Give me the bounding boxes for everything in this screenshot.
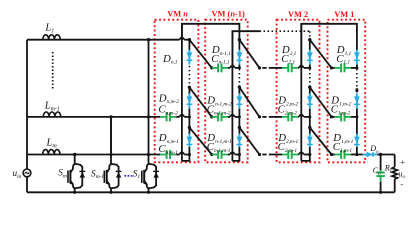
svg-text:-: - — [400, 179, 403, 189]
node diagonal end — [210, 66, 213, 69]
node chain junctions VM n — [188, 38, 191, 41]
inductor Lm-1 — [43, 112, 60, 117]
capacitor Cn-1,1 — [212, 67, 218, 69]
node diagonal end — [258, 153, 261, 156]
svg-text:+: + — [400, 157, 405, 167]
node dots ground rail — [73, 191, 76, 194]
wire row F3 to hop — [176, 154, 179, 156]
wire row F3 to chain — [184, 154, 189, 156]
wire chain bottom VM n — [188, 147, 190, 155]
wire row to chain VM 1 — [351, 67, 357, 69]
wire Do to output corner — [377, 154, 394, 156]
diode D1,1 — [356, 50, 358, 65]
wire rail VMn to VMn-1 — [182, 24, 240, 40]
wire chain bottom VM n-1 — [238, 147, 240, 155]
wire diagonal VM n-1 to row 1 — [239, 40, 259, 68]
diode Dn-1,1 — [238, 50, 240, 65]
transistor S1 — [148, 155, 150, 165]
wire row to hop VM 2 — [297, 67, 300, 69]
wire chain lower VM n-1 — [238, 128, 240, 135]
wire hop over return VM 2 — [299, 115, 303, 117]
wire row F2 to hop — [176, 116, 179, 118]
capacitor C1,m-1 — [335, 154, 341, 156]
wire chain junction stub VM n — [188, 86, 190, 96]
wire row to chain VM 2 — [304, 67, 310, 69]
VM box VM (n-1) — [205, 20, 248, 163]
wire hop F2 over return — [180, 115, 184, 117]
wire U-detour VM n-1 — [232, 155, 239, 161]
wire row to hop VM 2 — [297, 116, 300, 118]
capacitor C1,m-2 — [335, 116, 341, 118]
capacitor Cn,m-1 — [160, 154, 166, 156]
wire row to hop VM n-1 — [228, 116, 230, 118]
wire chain mid VM 2 — [309, 109, 311, 129]
wire chain lower VM 1 — [356, 128, 358, 135]
capacitor Co — [380, 155, 382, 171]
wire row 1 VM n-1 — [211, 67, 213, 69]
wire rail VM2 to VM1 — [301, 24, 357, 68]
diode Dn,m-1 — [188, 134, 190, 147]
wire hop over return VM 2 — [299, 152, 303, 154]
wire row m-1 VM n-1 — [211, 154, 213, 156]
wire chain dotted VM 1 — [356, 69, 358, 93]
wire chain mid VM n — [188, 109, 190, 129]
wire row 1 VM 2 — [269, 67, 282, 69]
wire diagonal VM 2 to row m-1 — [310, 128, 332, 155]
wire U-detour VM 2 — [301, 155, 310, 161]
svg-text:VM 1: VM 1 — [334, 10, 354, 19]
wire chain bottom VM 2 — [309, 147, 311, 155]
wire diagonal VM n-1 to row m-2 — [239, 87, 259, 117]
wire row to chain VM 2 — [304, 116, 310, 118]
wire row m-1 VM 2 — [269, 154, 282, 156]
wire chain dotted VM 2 — [309, 69, 311, 86]
phase ellipsis dotted — [52, 52, 54, 89]
wire diagonal VM n to row m-2 — [189, 87, 211, 117]
wire hop over return VM 2 — [299, 66, 303, 68]
wire chain top VM n-1 — [238, 40, 240, 51]
wire diagonal VM 2 to row 1 — [310, 40, 332, 68]
node diagonal end — [210, 115, 213, 118]
wire hop over return VM n-1 — [230, 115, 234, 117]
wire chain to row A VM 1 — [356, 65, 358, 68]
diode Do — [363, 154, 378, 156]
VM box VM n — [155, 20, 199, 163]
capacitor C2,m-1 — [282, 154, 288, 156]
node row junctions VM 2 — [308, 66, 311, 69]
node diagonal end — [210, 153, 213, 156]
node dot on dotted chain VM 1 — [355, 88, 358, 92]
diode D2,m-1 — [309, 134, 311, 147]
diode Dn,m-2 — [188, 93, 190, 108]
wire row F1 to chain — [184, 39, 189, 41]
node diagonal end — [258, 66, 261, 69]
wire chain dotted VM n — [188, 66, 190, 86]
node diagonal end — [330, 115, 333, 118]
inductor L1 — [43, 35, 60, 40]
node chain junctions VM n-1 — [238, 38, 241, 41]
wire chain dotted VM n-1 — [238, 69, 240, 86]
capacitor Cn-1,m-1 — [212, 154, 218, 156]
capacitor Cn,m-2 — [160, 116, 166, 118]
wire bottom rail — [27, 191, 395, 193]
wire chain lower VM n — [188, 128, 190, 135]
inductor Lm — [43, 150, 60, 155]
wire hop F1 over return — [180, 38, 184, 40]
source u_in — [23, 169, 31, 177]
VM box VM 1 — [328, 20, 366, 163]
wire ellipsis dash — [262, 154, 266, 156]
wire rail VMn-1 to VM2 (dotted) — [232, 31, 259, 68]
wire ellipsis dash — [262, 116, 266, 118]
svg-text:VM 2: VM 2 — [288, 10, 308, 19]
wire Sm-1 drain vertical — [110, 117, 112, 155]
wire chain to row A VM n-1 — [238, 65, 240, 68]
wire chain lower VM 2 — [309, 128, 311, 135]
svg-text:VM (n-1): VM (n-1) — [212, 9, 245, 18]
node row junctions VM 1 — [355, 66, 358, 69]
wire hop over return VM n-1 — [230, 66, 234, 68]
wire U-detour VM n — [182, 155, 190, 161]
switch ellipsis dots — [124, 175, 126, 177]
diode D2,m-2 — [309, 93, 311, 108]
wire row F3 (Lm feed) — [27, 154, 160, 156]
wire hop over return VM n-1 — [230, 152, 234, 154]
resistor RL — [394, 155, 396, 167]
wire row to chain VM n-1 — [235, 154, 240, 156]
transistor Sm — [74, 155, 76, 165]
wire ellipsis dash — [262, 67, 266, 69]
capacitor C2,1 — [282, 67, 288, 69]
diode D2,1 — [309, 50, 311, 65]
wire diagonal VM n-1 to row m-1 — [239, 128, 259, 155]
wire return vertical VM n — [181, 24, 183, 161]
node row junctions VM n — [188, 115, 191, 118]
wire row to chain VM 2 — [304, 154, 310, 156]
capacitor C2,m-2 — [282, 116, 288, 118]
wire diagonal VM n to row m-1 — [189, 128, 211, 155]
wire row to chain VM 1 — [351, 116, 357, 118]
wire diagonal VM 2 to row m-2 — [310, 87, 332, 117]
wire chain top VM n — [188, 40, 190, 51]
node diagonal end — [258, 115, 261, 118]
wire chain junction stub VM n-1 — [238, 86, 240, 96]
capacitor C1,1 — [335, 67, 341, 69]
wire row to chain VM 1 — [351, 154, 357, 156]
wire row F2 (Lm-1 feed) — [27, 116, 160, 118]
wire row m-2 VM 1 — [332, 116, 335, 118]
wire row to chain VM n-1 — [235, 67, 240, 69]
wire row to hop VM n-1 — [228, 67, 230, 69]
wire row F1 (L1 feed) — [27, 39, 180, 41]
wire left vertical — [26, 40, 28, 169]
wire chain mid VM n-1 — [238, 109, 240, 129]
diode D1,m-1 — [356, 134, 358, 147]
diode D1,m-2 — [356, 93, 358, 108]
capacitor Cn-1,m-2 — [212, 116, 218, 118]
wire row to hop VM 2 — [297, 154, 300, 156]
wire row F2 to chain — [184, 116, 189, 118]
wire row to chain VM n-1 — [235, 116, 240, 118]
wire chain junction stub VM 2 — [309, 86, 311, 96]
wire row 1 VM 1 — [332, 67, 335, 69]
VM box VM 2 — [277, 20, 320, 163]
diode Dn-1,m-2 — [238, 93, 240, 108]
node chain junctions VM 2 — [308, 38, 311, 41]
diode Dn,1 — [188, 50, 190, 65]
wire row to hop VM n-1 — [228, 154, 230, 156]
transistor Sm-1 — [110, 117, 112, 164]
wire diagonal VM n to row 1 — [189, 40, 211, 68]
node output junction — [379, 153, 382, 156]
wire chain mid VM 1 — [356, 109, 358, 129]
wire S1 drain vertical — [148, 40, 150, 155]
wire chain bottom VM 1 — [356, 147, 358, 155]
wire row m-2 VM n-1 — [211, 116, 213, 118]
wire chain to row A VM 2 — [309, 65, 311, 68]
wire row m-1 VM 1 — [332, 154, 335, 156]
wire VM1 bottom to Do — [357, 154, 363, 156]
wire row m-2 VM 2 — [269, 116, 282, 118]
diode Dn-1,m-1 — [238, 134, 240, 147]
node row junctions VM n-1 — [238, 66, 241, 69]
wire return vertical VM 2 — [300, 24, 302, 161]
wire return vertical VM n-1 — [231, 31, 233, 161]
node dots feed rows — [147, 38, 150, 41]
node diagonal end — [330, 153, 333, 156]
wire chain top VM 2 — [309, 40, 311, 51]
svg-text:VM n: VM n — [167, 9, 188, 18]
wire hop F3 over return — [180, 152, 184, 154]
node diagonal end — [330, 66, 333, 69]
